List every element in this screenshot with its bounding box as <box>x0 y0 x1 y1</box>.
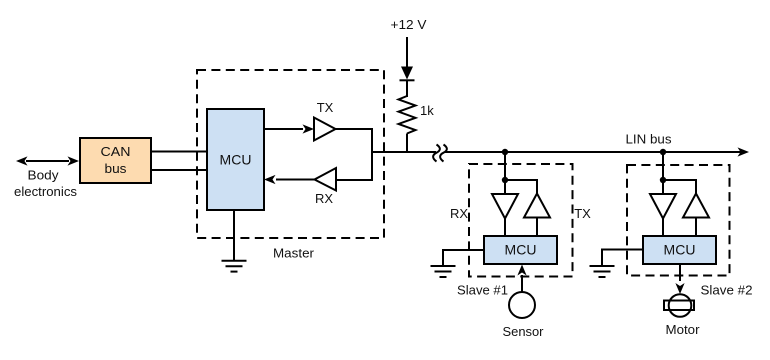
svg-text:1k: 1k <box>420 103 434 118</box>
svg-text:Sensor: Sensor <box>503 324 545 339</box>
svg-text:Master: Master <box>273 246 315 261</box>
svg-text:bus: bus <box>105 161 128 176</box>
svg-text:CAN: CAN <box>101 144 131 159</box>
svg-text:TX: TX <box>317 100 334 115</box>
svg-text:electronics: electronics <box>14 184 78 199</box>
svg-text:RX: RX <box>315 191 333 206</box>
svg-text:LIN bus: LIN bus <box>626 132 673 147</box>
svg-text:MCU: MCU <box>220 152 252 168</box>
svg-text:Motor: Motor <box>666 322 701 337</box>
svg-text:Body: Body <box>28 168 60 183</box>
svg-text:MCU: MCU <box>505 242 537 258</box>
svg-text:TX: TX <box>574 206 591 221</box>
svg-text:MCU: MCU <box>664 242 696 258</box>
svg-text:+12 V: +12 V <box>391 17 427 32</box>
svg-text:RX: RX <box>450 206 468 221</box>
svg-text:Slave #2: Slave #2 <box>701 283 753 298</box>
svg-text:Slave #1: Slave #1 <box>457 283 508 298</box>
